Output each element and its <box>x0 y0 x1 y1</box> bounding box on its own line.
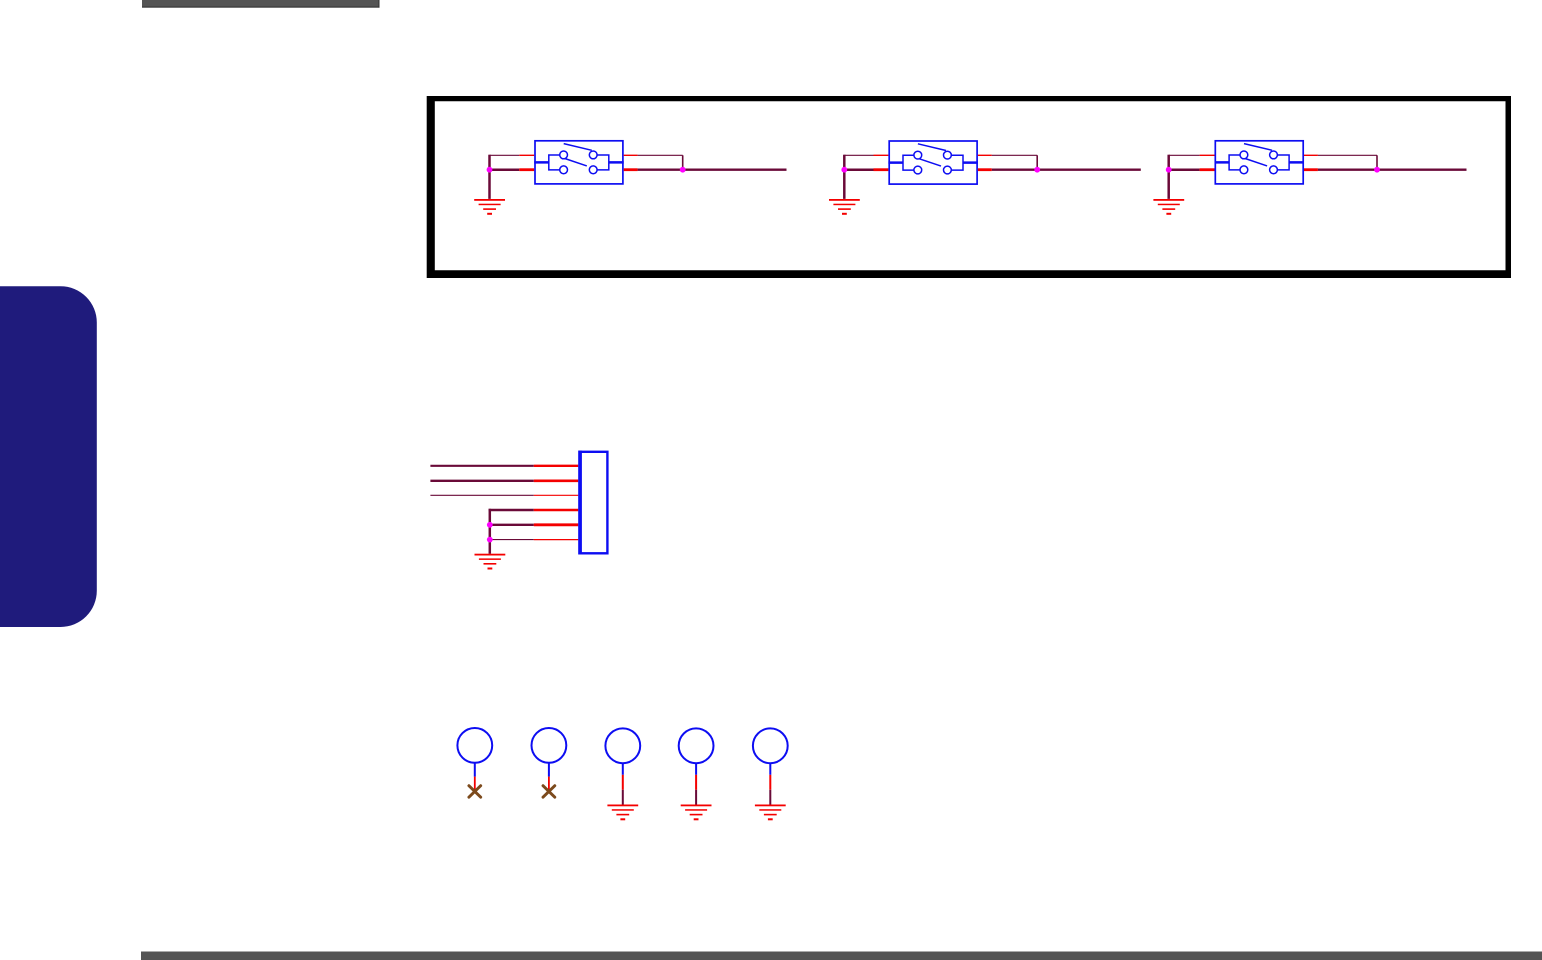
junction SW2 input <box>841 167 847 173</box>
wire SW3 lower left <box>1168 168 1215 171</box>
wire J1 pin4 <box>489 509 579 511</box>
ground MH3 <box>607 805 638 821</box>
junction SW1 input <box>487 167 493 173</box>
mounting hole MH4 <box>679 728 714 805</box>
ground J1 <box>475 554 506 570</box>
wire SW3 lower right <box>1304 168 1467 171</box>
no-connect X MH1 <box>469 786 481 798</box>
wire J1 pin2 <box>430 480 578 482</box>
wire SW1 left riser <box>488 155 491 199</box>
wire SW2 upper left <box>844 154 888 156</box>
junction SW1 output <box>680 167 686 173</box>
ground MH5 <box>755 805 786 821</box>
wire SW1 lower right <box>624 168 787 171</box>
wire J1 pin1 <box>430 465 578 467</box>
wire SW2 upper right <box>978 155 1037 169</box>
junction J1 pin6 <box>487 537 493 543</box>
wire SW1 upper left <box>490 154 535 156</box>
wire SW2 left riser <box>843 155 846 199</box>
mounting hole MH2 <box>532 728 567 791</box>
mounting hole MH1 <box>457 728 492 791</box>
wire SW1 upper right <box>624 155 683 169</box>
wire J1 ground riser <box>489 509 492 554</box>
ground SW3 <box>1153 199 1184 215</box>
junction SW3 output <box>1374 167 1380 173</box>
frame box (black border) <box>427 96 1511 278</box>
mounting hole MH3 <box>605 728 640 805</box>
ground MH4 <box>681 805 712 821</box>
wire SW2 lower left <box>843 168 888 171</box>
wire J1 pin5 <box>490 524 579 526</box>
side navy tab <box>0 286 97 627</box>
wire J1 pin3 <box>430 494 578 496</box>
wire J1 pin6 <box>490 539 579 541</box>
switch SW1 <box>534 141 624 184</box>
switch SW2 <box>888 141 978 184</box>
connector J1 <box>578 451 607 555</box>
footer gray bar <box>141 952 1542 960</box>
ground SW2 <box>829 199 860 215</box>
wire SW3 upper right <box>1304 155 1377 169</box>
switch SW3 <box>1215 141 1305 184</box>
junction SW3 input <box>1166 167 1172 173</box>
mounting hole MH5 <box>753 728 788 805</box>
junction SW2 output <box>1034 167 1040 173</box>
wire SW3 upper left <box>1169 154 1215 156</box>
junction J1 pin5 <box>487 522 493 528</box>
ground SW1 <box>474 199 505 215</box>
wire SW1 lower left <box>488 168 534 171</box>
wire SW3 left riser <box>1167 155 1170 199</box>
wire SW2 lower right <box>978 168 1141 171</box>
header gray bar <box>142 0 380 8</box>
no-connect X MH2 <box>543 786 555 798</box>
